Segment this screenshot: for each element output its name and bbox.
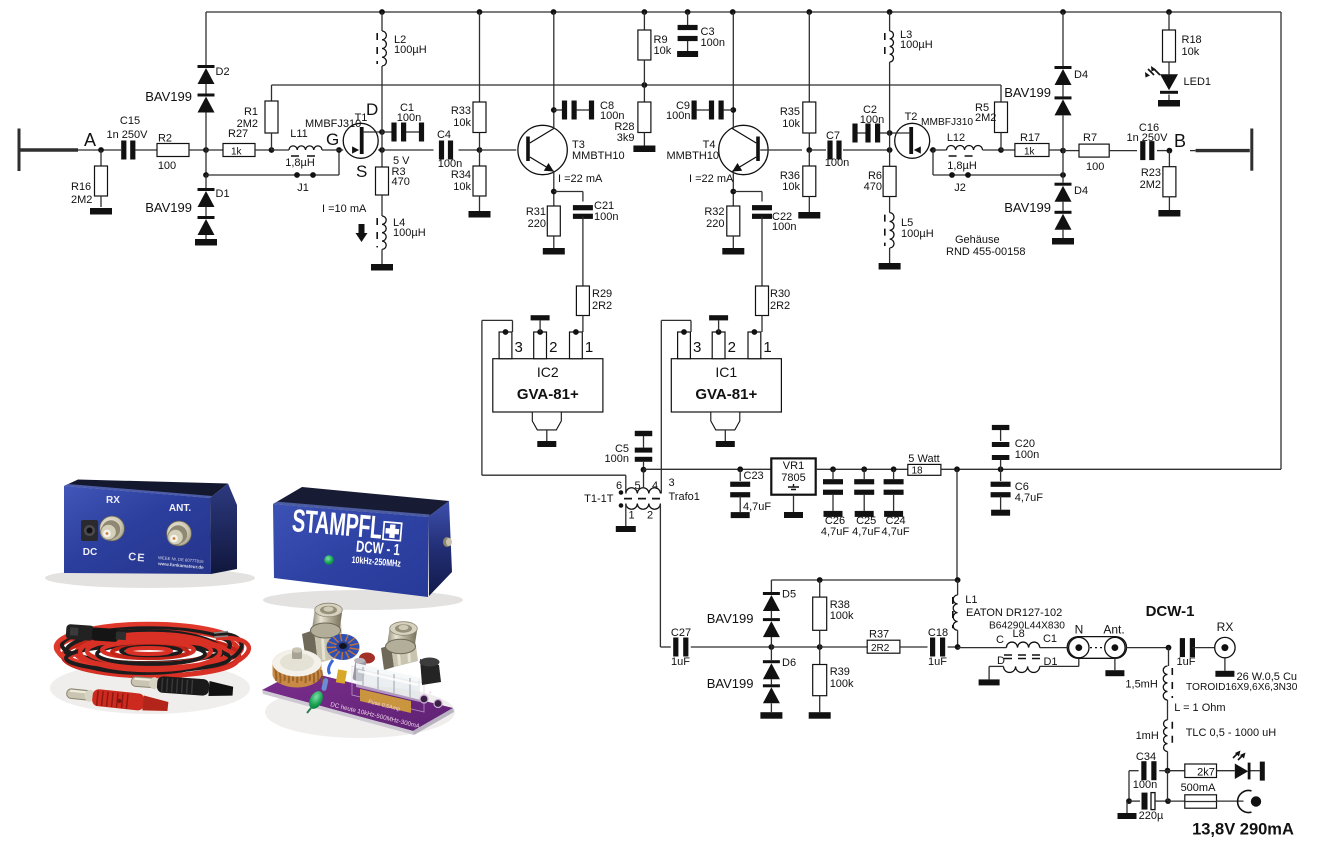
- svg-text:2M2: 2M2: [237, 118, 258, 130]
- svg-text:DC: DC: [83, 547, 97, 558]
- svg-text:4,7uF: 4,7uF: [743, 501, 771, 513]
- svg-text:2M2: 2M2: [1140, 179, 1161, 191]
- svg-text:4: 4: [652, 480, 658, 492]
- svg-text:470: 470: [392, 176, 410, 188]
- svg-text:1k: 1k: [1024, 147, 1036, 158]
- svg-text:3: 3: [669, 477, 675, 489]
- svg-text:C18: C18: [928, 627, 948, 639]
- svg-text:100n: 100n: [1015, 449, 1039, 461]
- svg-text:BAV199: BAV199: [707, 676, 754, 691]
- svg-text:100µH: 100µH: [900, 39, 933, 51]
- svg-text:R16: R16: [71, 181, 91, 193]
- svg-text:100: 100: [158, 160, 176, 172]
- svg-text:10k: 10k: [453, 117, 471, 129]
- svg-text:ANT.: ANT.: [169, 503, 191, 514]
- svg-text:L12: L12: [947, 132, 965, 144]
- svg-text:C: C: [996, 634, 1004, 646]
- svg-text:100n: 100n: [860, 114, 884, 126]
- svg-text:100n: 100n: [825, 157, 849, 169]
- svg-text:100n: 100n: [772, 221, 796, 233]
- svg-text:I =22 mA: I =22 mA: [689, 173, 734, 185]
- svg-text:BAV199: BAV199: [1004, 85, 1051, 100]
- svg-text:5 Watt: 5 Watt: [908, 453, 939, 465]
- svg-text:IC2: IC2: [537, 364, 559, 380]
- svg-text:RX: RX: [106, 495, 120, 506]
- svg-text:220: 220: [706, 218, 724, 230]
- svg-text:10k: 10k: [782, 118, 800, 130]
- svg-text:4,7uF: 4,7uF: [882, 526, 910, 538]
- svg-text:C15: C15: [120, 115, 140, 127]
- svg-text:R7: R7: [1083, 132, 1097, 144]
- svg-text:1,8µH: 1,8µH: [285, 157, 315, 169]
- svg-text:C34: C34: [1136, 751, 1156, 763]
- svg-text:3: 3: [693, 339, 701, 356]
- svg-text:J2: J2: [954, 182, 966, 194]
- svg-text:RX: RX: [1217, 620, 1234, 634]
- svg-text:MMBTH10: MMBTH10: [572, 150, 625, 162]
- svg-text:1: 1: [763, 339, 771, 356]
- svg-text:G: G: [326, 130, 339, 149]
- svg-text:C7: C7: [826, 130, 840, 142]
- svg-text:BAV199: BAV199: [707, 611, 754, 626]
- svg-text:10k: 10k: [1182, 46, 1200, 58]
- svg-text:C: C: [128, 551, 137, 564]
- svg-text:100n: 100n: [397, 112, 421, 124]
- svg-text:MMBTH10: MMBTH10: [666, 150, 719, 162]
- svg-text:L = 1 Ohm: L = 1 Ohm: [1174, 702, 1225, 714]
- svg-text:1n 250V: 1n 250V: [107, 129, 149, 141]
- svg-text:TLC 0,5 - 1000 uH: TLC 0,5 - 1000 uH: [1186, 727, 1277, 739]
- svg-text:R37: R37: [869, 629, 889, 641]
- svg-text:6: 6: [616, 480, 622, 492]
- svg-text:13,8V 290mA: 13,8V 290mA: [1192, 821, 1294, 839]
- svg-text:C27: C27: [671, 627, 691, 639]
- svg-text:TOROID16X9,6X6,3N30: TOROID16X9,6X6,3N30: [1186, 682, 1298, 693]
- svg-text:J1: J1: [297, 182, 309, 194]
- svg-text:470: 470: [864, 181, 882, 193]
- svg-text:R23: R23: [1141, 167, 1161, 179]
- svg-text:10k: 10k: [654, 45, 672, 57]
- svg-text:7805: 7805: [781, 472, 805, 484]
- svg-text:1uF: 1uF: [671, 656, 690, 668]
- svg-text:1k: 1k: [231, 147, 243, 158]
- svg-text:10k: 10k: [453, 181, 471, 193]
- svg-text:R32: R32: [704, 206, 724, 218]
- svg-text:D2: D2: [216, 66, 230, 78]
- svg-text:D: D: [366, 100, 378, 119]
- svg-text:1,5mH: 1,5mH: [1125, 679, 1157, 691]
- svg-text:100n: 100n: [701, 37, 725, 49]
- svg-text:100µH: 100µH: [393, 227, 426, 239]
- svg-text:R35: R35: [780, 106, 800, 118]
- svg-text:N: N: [1075, 623, 1084, 637]
- svg-text:BAV199: BAV199: [145, 200, 192, 215]
- svg-text:100µH: 100µH: [394, 44, 427, 56]
- svg-text:1uF: 1uF: [1177, 656, 1196, 668]
- svg-text:1uF: 1uF: [928, 656, 947, 668]
- svg-text:DCW-1: DCW-1: [1146, 603, 1195, 620]
- svg-text:1n 250V: 1n 250V: [1127, 132, 1169, 144]
- svg-text:2: 2: [549, 339, 557, 356]
- svg-text:RND 455-00158: RND 455-00158: [946, 246, 1026, 258]
- svg-text:100n: 100n: [605, 453, 629, 465]
- svg-text:2R2: 2R2: [871, 643, 890, 654]
- svg-text:R39: R39: [830, 666, 850, 678]
- svg-text:C4: C4: [437, 129, 451, 141]
- svg-text:R18: R18: [1182, 34, 1202, 46]
- svg-text:BAV199: BAV199: [145, 89, 192, 104]
- svg-text:D1: D1: [216, 188, 230, 200]
- svg-text:Ant.: Ant.: [1103, 623, 1124, 637]
- svg-text:A: A: [84, 130, 96, 150]
- svg-text:D4: D4: [1074, 69, 1088, 81]
- svg-text:100k: 100k: [830, 678, 854, 690]
- svg-text:R2: R2: [158, 133, 172, 145]
- svg-text:D6: D6: [782, 657, 796, 669]
- svg-text:D5: D5: [782, 589, 796, 601]
- svg-text:T2: T2: [905, 111, 918, 123]
- svg-text:D: D: [997, 655, 1005, 667]
- svg-text:R34: R34: [451, 169, 471, 181]
- svg-text:100: 100: [1086, 161, 1104, 173]
- svg-text:1,8µH: 1,8µH: [947, 160, 977, 172]
- svg-text:1: 1: [628, 510, 634, 522]
- svg-text:5: 5: [634, 480, 640, 492]
- svg-text:EATON DR127-102: EATON DR127-102: [966, 607, 1062, 619]
- svg-text:4,7uF: 4,7uF: [852, 526, 880, 538]
- svg-text:10k: 10k: [782, 181, 800, 193]
- svg-text:R17: R17: [1020, 132, 1040, 144]
- svg-text:LED1: LED1: [1184, 76, 1212, 88]
- svg-text:2M2: 2M2: [71, 194, 92, 206]
- svg-text:100n: 100n: [594, 211, 618, 223]
- svg-text:R30: R30: [770, 288, 790, 300]
- svg-text:2k7: 2k7: [1197, 767, 1215, 779]
- svg-text:IC1: IC1: [715, 364, 737, 380]
- svg-text:MMBFJ310: MMBFJ310: [921, 117, 973, 128]
- svg-text:4,7uF: 4,7uF: [821, 526, 849, 538]
- svg-text:I =22 mA: I =22 mA: [558, 173, 603, 185]
- svg-text:100µH: 100µH: [901, 228, 934, 240]
- svg-text:E: E: [137, 552, 145, 564]
- svg-text:R33: R33: [451, 105, 471, 117]
- svg-text:3: 3: [515, 339, 523, 356]
- svg-text:5 V: 5 V: [393, 155, 410, 167]
- svg-text:500mA: 500mA: [1181, 782, 1217, 794]
- svg-text:S: S: [356, 162, 367, 181]
- svg-text:R31: R31: [526, 206, 546, 218]
- svg-text:2: 2: [728, 339, 736, 356]
- svg-text:2R2: 2R2: [592, 300, 612, 312]
- svg-text:L8: L8: [1012, 628, 1024, 640]
- svg-text:T1-1T: T1-1T: [584, 493, 614, 505]
- svg-text:4,7uF: 4,7uF: [1015, 492, 1043, 504]
- svg-text:100k: 100k: [830, 610, 854, 622]
- svg-text:100n: 100n: [666, 110, 690, 122]
- svg-text:C1: C1: [1043, 633, 1057, 645]
- svg-text:L1: L1: [965, 594, 977, 606]
- svg-text:R29: R29: [592, 288, 612, 300]
- svg-text:2: 2: [647, 510, 653, 522]
- svg-text:BAV199: BAV199: [1004, 200, 1051, 215]
- svg-text:Trafo1: Trafo1: [669, 491, 700, 503]
- svg-text:220: 220: [528, 218, 546, 230]
- svg-text:Gehäuse: Gehäuse: [955, 234, 1000, 246]
- svg-text:2R2: 2R2: [770, 300, 790, 312]
- svg-text:R1: R1: [244, 106, 258, 118]
- svg-text:D4: D4: [1074, 185, 1088, 197]
- svg-text:MMBFJ310: MMBFJ310: [305, 118, 361, 130]
- svg-text:2M2: 2M2: [975, 112, 996, 124]
- svg-text:GVA-81+: GVA-81+: [517, 386, 579, 403]
- svg-text:1mH: 1mH: [1136, 730, 1159, 742]
- svg-text:220µ: 220µ: [1139, 810, 1164, 822]
- svg-text:1: 1: [585, 339, 593, 356]
- svg-text:3k9: 3k9: [617, 132, 635, 144]
- svg-text:VR1: VR1: [783, 460, 804, 472]
- svg-text:100n: 100n: [1133, 779, 1157, 791]
- svg-text:B: B: [1174, 131, 1186, 151]
- svg-text:18: 18: [912, 466, 924, 477]
- svg-text:I =10 mA: I =10 mA: [322, 203, 367, 215]
- svg-text:GVA-81+: GVA-81+: [695, 386, 757, 403]
- svg-text:B64290L44X830: B64290L44X830: [989, 621, 1065, 632]
- svg-text:C23: C23: [744, 470, 764, 482]
